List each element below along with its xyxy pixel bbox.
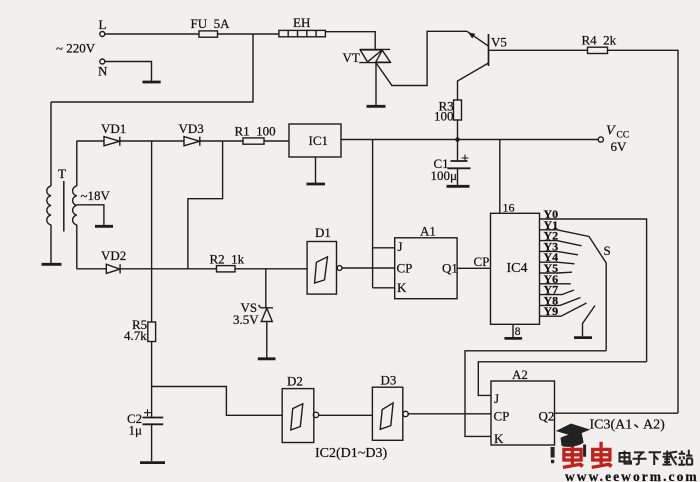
svg-text:VT: VT <box>343 50 360 65</box>
counter IC4 <box>491 213 540 324</box>
wire R4 to right edge down to Q2 <box>608 50 679 413</box>
gate D1 <box>307 242 342 295</box>
ground <box>143 81 161 84</box>
svg-text:3.5V: 3.5V <box>233 312 259 327</box>
svg-text:R1 100: R1 100 <box>235 124 276 139</box>
wire K path from pivot to A2 K <box>465 351 606 437</box>
wire Vcc to pin16 <box>499 140 501 214</box>
svg-text:4.7k: 4.7k <box>124 328 147 343</box>
gate D3 <box>372 387 408 440</box>
wire R5 to C2 <box>151 342 153 418</box>
watermark logo graduation cap <box>551 424 590 464</box>
wire Y1 lead and wiper to pivot <box>540 230 607 351</box>
wire Y4 contact <box>540 262 575 264</box>
wire R2 to D1 <box>235 268 307 270</box>
svg-text:IC2(D1~D3): IC2(D1~D3) <box>315 446 387 461</box>
wire D1 out to A1 CP <box>341 267 394 269</box>
svg-text:J: J <box>398 239 403 254</box>
wire secondary to VD1 <box>77 140 105 142</box>
wire VD3 node down to VD2 rail <box>188 141 223 269</box>
ground <box>307 183 326 186</box>
wire <box>105 62 152 82</box>
wire Y6 lead <box>540 283 571 285</box>
svg-text:VD1: VD1 <box>101 121 126 136</box>
wire <box>105 33 279 35</box>
flipflop A1 <box>395 238 457 299</box>
svg-text:100: 100 <box>434 109 454 124</box>
svg-text:R2 1k: R2 1k <box>210 252 245 267</box>
wire Q2 to right edge <box>555 412 679 414</box>
wire Y3 contact <box>540 251 579 254</box>
svg-text:D3: D3 <box>381 373 397 388</box>
svg-text:IC1: IC1 <box>309 133 329 148</box>
ground <box>574 336 592 339</box>
wire <box>325 32 375 50</box>
resistor R1 <box>243 138 264 144</box>
svg-text:J: J <box>494 391 499 406</box>
wire Y9 contact <box>540 303 587 316</box>
resistor R4 <box>588 47 608 53</box>
wire secondary tap <box>77 205 104 225</box>
diode VD3 <box>184 137 200 146</box>
wire pin8 to ground <box>512 324 514 337</box>
watermark site name characters <box>620 450 693 465</box>
svg-text:A2: A2 <box>512 367 528 382</box>
wire J path from Y0 to A2 J <box>478 362 646 396</box>
wire VD3 to R1 <box>200 140 243 142</box>
svg-text:www.eeworm.com: www.eeworm.com <box>565 469 699 482</box>
svg-text:D1: D1 <box>315 225 331 240</box>
node N terminal <box>100 59 105 64</box>
svg-text:Q1: Q1 <box>442 261 458 276</box>
triac VT <box>359 49 390 62</box>
wire D3 to A2 CP <box>407 413 491 415</box>
capacitor C1 <box>448 140 471 186</box>
svg-text:100μ: 100μ <box>431 168 458 183</box>
svg-text:Q2: Q2 <box>539 409 555 424</box>
ground <box>504 337 522 340</box>
transformer core <box>63 181 65 232</box>
resistor R2 <box>217 266 236 272</box>
svg-text:16: 16 <box>503 201 515 215</box>
svg-text:V5: V5 <box>491 35 507 50</box>
svg-text:8: 8 <box>515 326 521 338</box>
svg-text:K: K <box>494 431 504 446</box>
svg-text:S: S <box>604 243 611 258</box>
wire Q1 to IC4 <box>457 267 490 269</box>
ground <box>42 263 62 266</box>
svg-text:CP: CP <box>474 254 490 269</box>
wire Y7 contact <box>540 290 575 295</box>
svg-text:Y9: Y9 <box>544 304 559 318</box>
ground <box>140 461 165 464</box>
node L terminal <box>100 32 105 37</box>
wire IC1 to ground <box>315 157 317 183</box>
node Vcc junction <box>455 137 460 142</box>
wire Y0 lead <box>540 219 647 362</box>
svg-text:VD2: VD2 <box>101 248 126 263</box>
diode VD1 <box>104 137 120 146</box>
svg-text:~18V: ~18V <box>81 188 111 203</box>
svg-text:IC3(A1: IC3(A1 <box>590 418 633 433</box>
ground <box>95 225 113 228</box>
zener VS <box>259 269 274 358</box>
svg-text:FU 5A: FU 5A <box>191 16 231 31</box>
svg-text:A1: A1 <box>420 224 436 239</box>
switch S wiper stub to ground <box>583 306 596 337</box>
svg-text:A2): A2) <box>643 418 665 433</box>
transistor V5 <box>458 31 489 100</box>
wire R1 to IC1 <box>264 140 289 142</box>
wire Y8 contact <box>540 298 581 306</box>
ground <box>367 105 386 108</box>
wire R3 to Vcc rail <box>457 120 459 140</box>
wire Vcc rail <box>341 139 598 141</box>
wire D2 to D3 <box>318 414 372 416</box>
svg-text:N: N <box>98 64 108 79</box>
node Vcc terminal <box>598 137 603 142</box>
ground <box>258 357 276 360</box>
wire V5 to R4 <box>489 49 588 51</box>
svg-text:L: L <box>99 17 107 32</box>
wire triac to ground <box>375 63 377 106</box>
svg-text:T: T <box>58 166 66 181</box>
regulator IC1 <box>289 124 341 157</box>
transformer T secondary <box>73 141 77 269</box>
svg-text:D2: D2 <box>287 374 303 389</box>
svg-text:1μ: 1μ <box>129 423 143 438</box>
svg-text:6V: 6V <box>611 139 628 154</box>
svg-text:EH: EH <box>293 15 310 30</box>
wire R5 node to D2 <box>152 387 283 416</box>
wire VD1 to VD3 <box>120 140 184 142</box>
wire Y5 contact <box>540 271 573 274</box>
svg-text:VD3: VD3 <box>179 121 204 136</box>
ground <box>447 185 470 188</box>
wire Vcc down to J K of A1 <box>373 140 395 288</box>
watermark chongchong characters <box>563 442 612 468</box>
svg-text:K: K <box>397 280 407 295</box>
wire Y2 contact <box>540 241 582 246</box>
fuse FU 5A <box>199 31 218 37</box>
gate D2 <box>282 389 318 443</box>
wire VD1 node down to R5 <box>151 141 153 322</box>
svg-text:CP: CP <box>494 409 510 424</box>
diode VD2 <box>106 264 120 273</box>
svg-text:IC4: IC4 <box>507 261 528 276</box>
flipflop A2 <box>491 381 555 445</box>
wire triac gate path <box>377 31 468 85</box>
heater EH <box>279 30 326 36</box>
wire secondary bottom to VD2 <box>77 268 107 270</box>
transformer T primary <box>47 102 51 263</box>
svg-text:R4 2k: R4 2k <box>582 33 617 48</box>
wire VD2 to R2 <box>120 268 216 270</box>
svg-text:~ 220V: ~ 220V <box>56 41 96 56</box>
wire junction to mains down-left <box>51 34 253 102</box>
svg-text:CP: CP <box>397 261 413 276</box>
capacitor C2 <box>143 409 164 461</box>
resistor R3 <box>454 100 462 120</box>
resistor R5 <box>148 322 156 342</box>
svg-text:V: V <box>606 124 616 139</box>
